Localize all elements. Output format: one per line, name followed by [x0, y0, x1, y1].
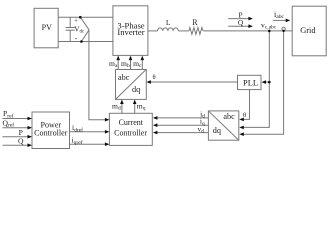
- wire: Vdc feedback down to current controller: [89, 30, 107, 120]
- wire: modulation signal mb to inverter: [130, 60, 132, 70]
- arrowhead: Qref into power controller: [28, 126, 33, 130]
- node: PLL input junction: [268, 81, 271, 84]
- svg-text:dq: dq: [132, 85, 140, 94]
- arrowhead: vc,abc into PLL: [262, 80, 267, 84]
- wire: vd output of abc-to-dq box: [157, 132, 209, 134]
- svg-text:abc: abc: [118, 73, 130, 82]
- svg-text:PLL: PLL: [243, 79, 258, 88]
- arrowhead: iabc flow indicator: [286, 19, 291, 23]
- wire: PV to inverter bottom rail: [58, 41, 113, 43]
- inductor L: [158, 28, 179, 31]
- arrowhead: Q into power controller: [28, 143, 33, 147]
- wire: P input: [3, 136, 29, 138]
- abc-to-dq measurement transform box: [208, 111, 238, 140]
- wire: iabc flow indicator arrow: [273, 19, 287, 21]
- power controller box: [32, 112, 70, 149]
- wire: inductor to resistor: [178, 30, 189, 32]
- diagonal of dq-to-abc box: [116, 70, 146, 99]
- wire: iqref power to current controller: [70, 143, 107, 145]
- capacitor Cdc lead top: [69, 17, 71, 27]
- wire: Q flow indicator arrow: [228, 25, 249, 27]
- svg-text:Current: Current: [119, 118, 144, 127]
- dq-to-abc transform box (modulation): [116, 70, 147, 100]
- arrowhead: mc into inverter: [141, 56, 145, 61]
- arrowhead: md into dq-to-abc box: [120, 100, 124, 105]
- capacitor Cdc plate top: [66, 27, 75, 29]
- svg-text:abc: abc: [223, 112, 235, 121]
- current controller box: [109, 113, 152, 145]
- arrowhead: mq into dq-to-abc box: [133, 100, 137, 105]
- svg-text:Controller: Controller: [114, 128, 147, 137]
- wire: vc,abc tap into PLL: [265, 81, 269, 83]
- wire: modulation signal ma to inverter: [117, 60, 119, 70]
- wire: mq from current controller: [134, 104, 136, 114]
- PLL box: [238, 75, 262, 89]
- svg-text:Q: Q: [238, 18, 244, 27]
- wire: idref power to current controller: [70, 131, 107, 133]
- svg-text:Inverter: Inverter: [117, 27, 144, 37]
- wire: md from current controller: [121, 104, 123, 114]
- node: vc,abc tap junction: [268, 30, 271, 33]
- current sensor circle on grid line: [282, 27, 285, 30]
- capacitor Cdc plate bottom: [66, 29, 75, 31]
- Vdc sense probe upper lead: [80, 17, 89, 30]
- arrowhead: theta into dq-to-abc box: [146, 80, 151, 84]
- svg-text:Controller: Controller: [34, 128, 68, 137]
- svg-text:θ: θ: [152, 74, 155, 81]
- arrowhead: ma into inverter: [116, 56, 120, 61]
- wire: iq output of abc-to-dq box: [157, 124, 209, 126]
- resistor R: [189, 28, 203, 35]
- node: Vdc sense bottom junction: [80, 40, 83, 43]
- svg-text:Q: Q: [18, 137, 24, 146]
- wire: id output of abc-to-dq box: [157, 117, 209, 119]
- svg-text:R: R: [192, 18, 198, 27]
- diagonal of abc-to-dq box: [209, 111, 239, 140]
- Vdc sense probe lower lead: [81, 30, 89, 42]
- wire: P flow indicator arrow: [228, 18, 249, 20]
- arrowhead: Q flow indicator: [248, 24, 253, 28]
- arrowhead: idref into current controller: [105, 130, 110, 134]
- wire: vc,abc tap down to abc-to-dq box: [243, 31, 269, 128]
- PV source box: [34, 8, 58, 48]
- svg-text:L: L: [166, 18, 171, 27]
- node: Vdc sense top junction: [79, 16, 82, 19]
- arrowhead: iq into current controller: [153, 123, 158, 127]
- svg-text:θ: θ: [243, 112, 246, 119]
- wire: theta from PLL down to abc-to-dq box: [243, 90, 250, 120]
- capacitor Cdc lead bottom: [69, 30, 71, 41]
- wire: modulation signal mc to inverter: [141, 60, 143, 70]
- 3-phase inverter box: [113, 6, 148, 56]
- svg-text:PV: PV: [42, 23, 52, 32]
- arrowhead: Vdc into current controller: [105, 118, 110, 122]
- arrowhead: Pref into power controller: [28, 117, 33, 121]
- wire: theta from PLL to dq-to-abc box: [151, 81, 238, 83]
- wire: inverter output to inductor: [148, 30, 158, 32]
- arrowhead: P flow indicator: [248, 17, 253, 21]
- grid box: [292, 6, 326, 56]
- arrowhead: theta into abc-to-dq box: [239, 118, 244, 122]
- arrowhead: vc,abc into abc-to-dq box: [239, 126, 244, 130]
- arrowhead: iabc into abc-to-dq box: [239, 132, 244, 136]
- wire: iabc measurement down to abc-to-dq box: [243, 31, 283, 134]
- arrowhead: vd into current controller: [153, 131, 158, 135]
- wire: resistor to grid: [203, 30, 292, 32]
- wire: PV to inverter top rail: [58, 16, 113, 18]
- arrowhead: id into current controller: [153, 116, 158, 120]
- svg-text:+: +: [74, 16, 78, 24]
- arrowhead: P into power controller: [28, 135, 33, 139]
- node: iabc sensor junction: [282, 30, 284, 32]
- svg-text:Grid: Grid: [300, 26, 316, 35]
- wire: Pref input: [3, 118, 29, 120]
- arrowhead: mb into inverter: [129, 56, 133, 61]
- wire: Q input: [3, 144, 29, 146]
- arrowhead: iqref into current controller: [105, 142, 110, 146]
- wire: Qref input: [3, 127, 29, 129]
- svg-text:dq: dq: [213, 126, 221, 135]
